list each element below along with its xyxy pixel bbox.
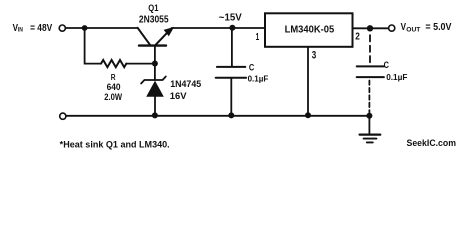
svg-text:0.1µF: 0.1µF	[248, 74, 269, 84]
svg-text:C: C	[249, 62, 255, 72]
wire: resistor to base node	[126, 63, 155, 65]
svg-text:LM340K-05: LM340K-05	[285, 25, 335, 36]
svg-text:~15V: ~15V	[219, 13, 242, 24]
node: junction at V_IN rail	[82, 25, 88, 31]
wire: regulator pin 2 to output terminal	[353, 27, 388, 29]
terminal: ground return (bottom left)	[60, 113, 66, 119]
node: pin3 ground junction	[305, 112, 311, 118]
wire: pin 3 to ground rail	[307, 48, 309, 116]
wire: drop from V_IN junction to resistor	[85, 28, 101, 64]
terminal: V_OUT output	[389, 25, 395, 31]
svg-text:2: 2	[355, 32, 360, 43]
svg-text:OUT: OUT	[406, 27, 421, 34]
wire: top rail from input terminal to Q1 collector	[66, 27, 138, 29]
node: zener-ground junction	[152, 112, 158, 118]
capacitor C output: bottom plate	[357, 76, 384, 78]
node: ~15V junction	[229, 25, 235, 31]
svg-text:= 48V: = 48V	[30, 23, 52, 34]
capacitor C input: top plate	[217, 66, 245, 68]
capacitor C input: bottom plate	[216, 77, 246, 79]
transistor Q1: base bar	[139, 44, 166, 46]
node: output junction	[367, 25, 373, 31]
svg-text:16V: 16V	[170, 91, 188, 101]
zener diode D1 1N4745: cathode bar with bent ends	[141, 77, 166, 84]
resistor R 640 2.0W zigzag	[101, 60, 126, 67]
svg-text:2.0W: 2.0W	[104, 92, 122, 102]
svg-text:1: 1	[256, 32, 260, 43]
ground symbol: stub	[368, 116, 370, 134]
transistor Q1: emitter diagonal with arrow	[156, 31, 169, 44]
svg-text:*Heat sink Q1 and LM340.: *Heat sink Q1 and LM340.	[60, 139, 170, 149]
svg-text:= 5.0V: = 5.0V	[425, 22, 451, 33]
wire: top rail from Q1 emitter to regulator pin 1	[172, 27, 265, 29]
svg-text:3: 3	[312, 50, 317, 62]
svg-text:2N3055: 2N3055	[139, 15, 169, 26]
svg-text:1N4745: 1N4745	[170, 79, 201, 89]
svg-text:Q1: Q1	[148, 3, 158, 13]
capacitor C input 0.1uF: top lead	[231, 28, 233, 66]
capacitor C output 0.1uF: top plate	[357, 65, 384, 67]
node: output cap ground junction	[366, 113, 372, 119]
svg-text:640: 640	[107, 82, 121, 92]
regulator U1 LM340K-05 box	[265, 13, 353, 47]
wire: dashed lead from output cap to ground rail	[368, 78, 370, 114]
transistor Q1 2N3055: collector diagonal	[138, 28, 150, 45]
transistor Q1: base lead down to zener	[154, 46, 156, 80]
zener diode D1: triangle (anode)	[146, 81, 164, 97]
svg-text:SeekIC.com: SeekIC.com	[407, 138, 457, 148]
svg-text:R: R	[111, 72, 116, 82]
svg-text:IN: IN	[18, 27, 23, 34]
node: input cap ground junction	[228, 112, 234, 118]
node: base junction dot	[152, 61, 158, 67]
wire: dashed lead from output node to output cap	[369, 32, 371, 66]
wire: zener anode to ground rail	[154, 97, 156, 116]
svg-text:C: C	[384, 60, 390, 70]
ground symbol: bars	[360, 134, 381, 136]
wire: bottom ground rail	[66, 115, 369, 117]
svg-text:0.1µF: 0.1µF	[386, 72, 407, 82]
capacitor C input: bottom lead	[230, 79, 232, 116]
terminal: V_IN input	[59, 25, 65, 31]
